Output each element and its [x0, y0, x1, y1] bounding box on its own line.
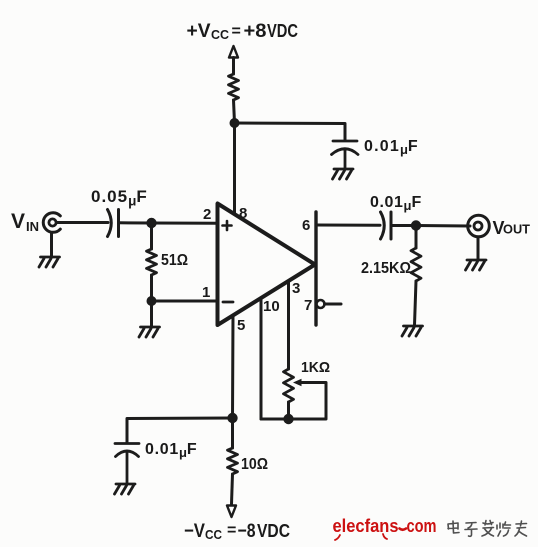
ground below C4: [115, 484, 136, 494]
svg-text:CC: CC: [211, 27, 230, 42]
svg-text:5: 5: [237, 317, 245, 334]
node VCC junction: [230, 118, 240, 128]
svg-text:2.15KΩ: 2.15KΩ: [361, 260, 411, 277]
wire node VCC to pin 8: [233, 123, 236, 214]
connector J1 center pin: [49, 219, 56, 226]
wire R1 to node B: [150, 275, 153, 301]
net label +VCC = +8VDC: [187, 21, 299, 42]
wire choke to node VCC: [234, 100, 235, 123]
svg-text:0.05μF: 0.05μF: [91, 187, 148, 209]
svg-text:OUT: OUT: [503, 223, 530, 237]
pin 7 stub wire: [325, 303, 342, 306]
wire pot to node E: [287, 402, 290, 419]
wire arrow to choke: [232, 58, 235, 75]
connector J2 center pin: [474, 222, 482, 230]
wire J1 to C1: [57, 221, 109, 224]
wire pin 6 to C3: [316, 224, 380, 227]
svg-text:8: 8: [239, 205, 247, 222]
wire C3 to node C: [391, 224, 416, 227]
resistor R1 51 ohm: [147, 249, 157, 275]
ground stem J2: [477, 237, 480, 259]
wire pin 10 down: [260, 299, 263, 420]
resistor R2 2.15K ohm: [411, 248, 421, 281]
svg-text:+V: +V: [187, 21, 211, 42]
chinese text dianzifashaoyou: [448, 521, 527, 537]
minus sign (inverting input): [223, 301, 233, 304]
wiper arrow of R4: [293, 379, 302, 386]
node E junction: [283, 414, 293, 424]
wire node B to pin 1: [152, 300, 218, 303]
svg-text:0.01μF: 0.01μF: [145, 441, 197, 460]
svg-text:0.01μF: 0.01μF: [364, 138, 419, 157]
arrow to +VCC supply: [229, 46, 238, 58]
wire node C down to R2: [415, 226, 418, 249]
capacitor C4 0.01uF bypass: [115, 444, 139, 484]
node A junction: [146, 218, 156, 228]
capacitor C2 0.01uF bypass: [332, 141, 359, 168]
svg-text:=: =: [227, 522, 236, 539]
wiper wire loop: [289, 383, 327, 420]
ground below J2: [466, 260, 487, 270]
svg-text:0.01μF: 0.01μF: [370, 194, 422, 213]
output label VOUT: [493, 218, 531, 238]
wire R2 to ground: [415, 281, 417, 325]
svg-text:VDC: VDC: [257, 521, 290, 541]
svg-text:VDC: VDC: [267, 21, 298, 41]
svg-text:2: 2: [203, 206, 211, 223]
svg-text:CC: CC: [205, 527, 223, 542]
elecfans logo: [333, 515, 437, 540]
svg-text:6: 6: [302, 217, 310, 234]
wire node C to J2: [416, 224, 470, 228]
svg-text:−V: −V: [184, 521, 205, 542]
svg-text:1KΩ: 1KΩ: [301, 359, 330, 376]
wire node A down to R1: [150, 223, 153, 249]
svg-text:elecfans: elecfans: [333, 515, 399, 536]
svg-text:1: 1: [202, 284, 210, 301]
pin 7 open terminal: [317, 300, 325, 308]
node B junction: [147, 296, 157, 306]
capacitor C1 0.05uF: [108, 210, 119, 237]
wire R3 to arrow: [232, 474, 233, 504]
op-amp U1: [218, 204, 316, 326]
arrow to -VCC supply: [227, 506, 236, 518]
potentiometer R4 1K ohm element: [284, 369, 294, 402]
ground stem J1: [50, 233, 53, 257]
connector J2 (output coax): [468, 215, 490, 237]
net label -VCC = -8VDC: [184, 521, 290, 542]
node D junction: [227, 413, 237, 423]
wire node D to R3: [231, 418, 234, 448]
svg-text:V: V: [11, 210, 25, 233]
svg-text:+8: +8: [244, 21, 267, 42]
ground below node B: [139, 327, 160, 337]
capacitor C3 0.01uF output coupling: [381, 212, 392, 239]
wire pin 3 to potentiometer: [287, 281, 290, 369]
wire pin 5 to node D: [231, 316, 235, 419]
svg-text:IN: IN: [26, 219, 39, 234]
svg-text:10Ω: 10Ω: [241, 456, 268, 473]
wire node D to C4: [127, 418, 233, 442]
svg-text:7: 7: [304, 297, 312, 314]
wire pin 10 to node E: [261, 418, 289, 421]
svg-text:10: 10: [263, 298, 280, 315]
wire C1 to node A: [119, 221, 152, 224]
inductor L1 (RF choke, zigzag): [229, 74, 239, 100]
plus sign (non-inverting input): [223, 221, 232, 230]
svg-text:com: com: [407, 515, 437, 536]
input label VIN: [11, 210, 39, 234]
resistor R3 10 ohm: [228, 448, 238, 474]
ground below J1: [39, 257, 60, 267]
svg-text:−8: −8: [238, 521, 256, 542]
ground below R2: [402, 326, 423, 336]
connector J1 (input coax): [43, 213, 60, 233]
node C junction: [411, 220, 421, 230]
svg-text:=: =: [232, 23, 241, 40]
output bar: [314, 212, 317, 325]
wire node A to pin 2: [152, 222, 218, 225]
svg-text:51Ω: 51Ω: [161, 252, 188, 269]
wire node VCC to bypass capacitor: [235, 123, 346, 140]
svg-text:3: 3: [292, 280, 300, 297]
wire node B to ground: [150, 301, 153, 326]
ground below C2: [333, 169, 354, 179]
